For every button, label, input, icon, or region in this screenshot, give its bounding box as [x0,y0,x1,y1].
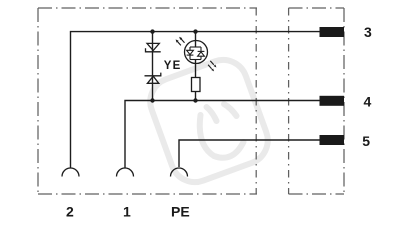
pin contact PE [171,168,188,177]
LED light arrows upper-left [176,37,185,46]
LED light arrows lower-right [208,61,216,72]
wire PE to terminal 5 [179,140,320,167]
svg-text:3: 3 [364,24,372,40]
svg-text:YE: YE [164,60,182,72]
wire pin2 to terminal 3 [71,32,321,168]
wire resistor to node [195,92,197,101]
svg-text:1: 1 [123,204,131,220]
terminal 3 [320,27,345,37]
node junction dot top diode [150,29,154,33]
svg-text:PE: PE [171,204,190,220]
pin contact 1 [117,168,134,177]
terminal 5 [320,135,345,145]
wire diode branch [152,32,154,101]
wire LED to resistor [195,60,197,78]
boundary dash-dot line left [255,8,257,194]
zener diode bottom [145,73,161,84]
svg-text:2: 2 [66,204,74,220]
node junction dot bottom resistor [193,98,197,102]
node junction dot bottom diode [150,98,154,102]
wire LED branch [195,32,197,47]
terminal 4 [320,96,345,106]
boundary dash-dot line right [288,8,290,194]
svg-text:5: 5 [362,133,370,149]
enclosure dash-dot border [38,8,344,194]
pin contact 2 [62,168,79,177]
svg-text:4: 4 [364,94,372,110]
wire pin1 to terminal 4 [125,101,320,168]
watermark logo [144,53,275,189]
node junction dot top LED [193,29,197,33]
LED internal antiparallel diodes [187,47,205,60]
zener diode top [146,43,161,51]
resistor R1 [192,78,201,92]
LED YE circle [185,41,208,64]
